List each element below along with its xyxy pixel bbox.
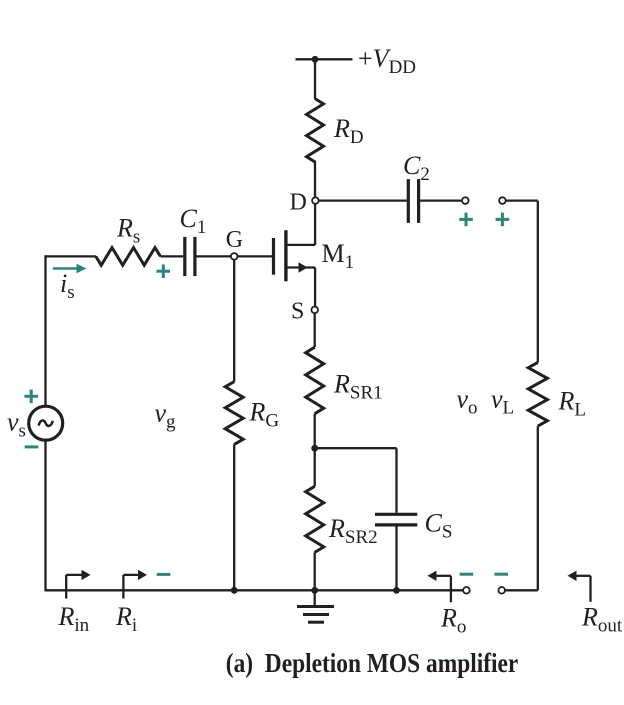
svg-text:G: G xyxy=(226,227,243,253)
svg-text:S: S xyxy=(291,299,304,325)
svg-text:D: D xyxy=(290,190,307,216)
svg-text:(a) Depletion MOS amplifier: (a) Depletion MOS amplifier xyxy=(226,648,519,678)
